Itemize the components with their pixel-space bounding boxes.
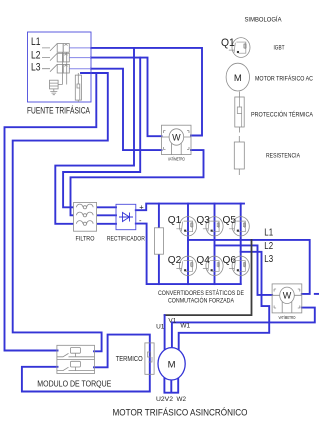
wire inverter leg 3 xyxy=(240,204,242,285)
svg-text:L1: L1 xyxy=(31,36,41,48)
svg-text:L3: L3 xyxy=(264,253,273,265)
IGBT Q5 xyxy=(229,217,249,236)
svg-text:M: M xyxy=(168,359,176,370)
svg-text:W1: W1 xyxy=(180,323,190,330)
svg-text:L3: L3 xyxy=(31,62,41,74)
svg-text:MOTOR TRIFÁSICO AC: MOTOR TRIFÁSICO AC xyxy=(255,74,313,83)
svg-text:Q5: Q5 xyxy=(223,214,237,226)
svg-text:U1: U1 xyxy=(156,324,165,331)
svg-text:Q1: Q1 xyxy=(168,214,182,226)
IGBT Q1 xyxy=(176,217,196,236)
wire U1 black from L1 tap xyxy=(165,240,252,315)
ground xyxy=(50,89,57,95)
IGBT Q6 xyxy=(229,256,249,275)
wire source row3 to wattmeter left bottom xyxy=(91,69,162,150)
svg-text:M: M xyxy=(234,73,242,84)
wire thermal A to module left top xyxy=(5,73,97,351)
svg-text:TERMICO: TERMICO xyxy=(116,356,143,363)
wire phase L2 to wattmeter2 left top xyxy=(215,245,273,295)
svg-text:IGBT: IGBT xyxy=(274,45,285,52)
svg-text:PROTECCIÓN TÉRMICA: PROTECCIÓN TÉRMICA xyxy=(251,110,314,119)
svg-text:W: W xyxy=(172,132,181,142)
wire DC minus bus xyxy=(136,224,241,285)
svg-text:L1: L1 xyxy=(264,226,273,238)
svg-text:VATÍMETRO: VATÍMETRO xyxy=(168,157,185,162)
wire source row2 tap down to filter row1 xyxy=(63,58,140,208)
svg-text:V1: V1 xyxy=(168,318,176,325)
svg-text:W2: W2 xyxy=(177,396,187,403)
IGBT Q4 xyxy=(203,256,223,275)
breaker row L1 xyxy=(42,43,91,52)
svg-text:RESISTENCIA: RESISTENCIA xyxy=(266,153,301,160)
wire dash right edge xyxy=(315,293,319,295)
svg-text:SIMBOLOGÍA: SIMBOLOGÍA xyxy=(245,15,282,24)
wire DC plus bus xyxy=(136,204,244,211)
wire inverter leg 1 xyxy=(187,204,189,285)
legend thermal protection symbol xyxy=(235,92,244,133)
control block xyxy=(50,80,59,89)
svg-text:CONVERTIDORES ESTÁTICOS DE: CONVERTIDORES ESTÁTICOS DE xyxy=(158,288,244,297)
svg-text:U2V2: U2V2 xyxy=(156,396,174,403)
breaker vertical link xyxy=(58,52,67,84)
wire filter to rectifier row3 xyxy=(97,223,116,225)
wire module right bottom through termico loop to module left bottom xyxy=(22,335,150,392)
legend resistor symbol xyxy=(234,136,244,175)
wire filter to rectifier row1 xyxy=(97,206,116,208)
svg-text:Q4: Q4 xyxy=(196,254,210,266)
termico symbol xyxy=(145,343,154,374)
svg-text:MODULO DE TORQUE: MODULO DE TORQUE xyxy=(37,379,111,389)
wire motor U1 drop xyxy=(164,315,166,353)
wattmeter W1 box xyxy=(162,125,192,161)
wattmeter W2 box xyxy=(272,284,302,320)
svg-text:RECTIFICADOR: RECTIFICADOR xyxy=(107,236,145,243)
svg-text:FILTRO: FILTRO xyxy=(76,236,95,243)
wire resistor top lead xyxy=(158,204,160,229)
wire filter to rectifier row2 xyxy=(97,214,116,216)
wire wattmeter2 right bottom to motor V1 xyxy=(172,308,315,351)
breaker row L3 xyxy=(42,64,91,73)
svg-text:L2: L2 xyxy=(31,50,41,62)
IGBT Q2 xyxy=(176,256,196,275)
svg-text:+: + xyxy=(139,203,144,212)
wire resistor bottom lead xyxy=(158,254,160,285)
svg-text:CONMUTACIÓN FORZADA: CONMUTACIÓN FORZADA xyxy=(168,296,235,305)
wire source row1 to wattmeter right top xyxy=(91,48,202,136)
legend motor symbol xyxy=(226,63,249,91)
svg-text:MOTOR TRIFÁSICO ASINCRÓNICO: MOTOR TRIFÁSICO ASINCRÓNICO xyxy=(113,408,248,418)
wire phase L1 to wattmeter2 right top xyxy=(188,240,310,294)
wire source row2 to wattmeter left top xyxy=(91,58,162,137)
breaker row L2 xyxy=(42,53,91,62)
svg-text:Q3: Q3 xyxy=(196,214,210,226)
filtro box xyxy=(74,203,97,243)
svg-text:Q2: Q2 xyxy=(168,254,182,266)
fuente trifasica box xyxy=(28,32,92,102)
motor M xyxy=(158,348,185,380)
svg-text:L2: L2 xyxy=(264,240,273,252)
wire thermal B to module right top xyxy=(13,73,108,351)
rectificador box xyxy=(107,203,145,243)
svg-text:FUENTE TRIFÁSICA: FUENTE TRIFÁSICA xyxy=(27,106,90,117)
modulo de torque block xyxy=(57,345,95,373)
wire phase L3 to motor W1 xyxy=(179,252,270,352)
wire source row1 tap down to filter row3 xyxy=(55,48,134,224)
wire inverter leg 2 xyxy=(214,204,216,285)
legend IGBT symbol xyxy=(229,38,250,58)
wire wattmeter right bottom to filter row2 xyxy=(71,150,204,215)
svg-text:W: W xyxy=(283,291,292,301)
svg-text:VATÍMETRO: VATÍMETRO xyxy=(279,315,296,320)
thermal in source box xyxy=(75,73,81,102)
resistor DC bus xyxy=(154,228,163,254)
svg-text:Q6: Q6 xyxy=(223,254,237,266)
wire motor bottom connections xyxy=(164,377,178,393)
svg-text:Q1: Q1 xyxy=(221,37,235,49)
IGBT Q3 xyxy=(203,217,223,236)
